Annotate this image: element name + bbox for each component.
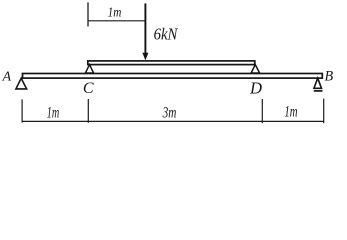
svg-text:D: D (249, 79, 262, 98)
secondary beam C-D (88, 61, 255, 65)
pin support A (triangle) (16, 78, 27, 89)
svg-text:1m: 1m (47, 104, 60, 121)
roller support B base line (314, 90, 323, 92)
svg-text:1m: 1m (284, 103, 297, 120)
hinge support C (small triangle) (85, 65, 93, 73)
hinge support D (small triangle) (251, 65, 260, 73)
bottom dimension tick at C (87, 99, 89, 123)
svg-text:3m: 3m (162, 104, 177, 121)
svg-text:B: B (324, 69, 333, 85)
bottom dimension line (22, 120, 324, 122)
force 6kN arrow shaft (144, 3, 146, 54)
force 6kN arrowhead (142, 53, 148, 61)
main beam A-B (23, 74, 323, 79)
dimension line 1m (top) (88, 20, 145, 22)
bottom dimension tick at B (323, 99, 325, 124)
svg-text:A: A (2, 68, 12, 83)
bottom dimension tick at A (21, 99, 23, 122)
dimension tick (top-left, above C) (87, 2, 89, 26)
svg-text:1m: 1m (108, 6, 122, 21)
roller support B (triangle) (314, 78, 322, 88)
bottom dimension tick at D (261, 99, 263, 123)
svg-text:6kN: 6kN (154, 25, 179, 44)
svg-text:C: C (83, 80, 94, 97)
